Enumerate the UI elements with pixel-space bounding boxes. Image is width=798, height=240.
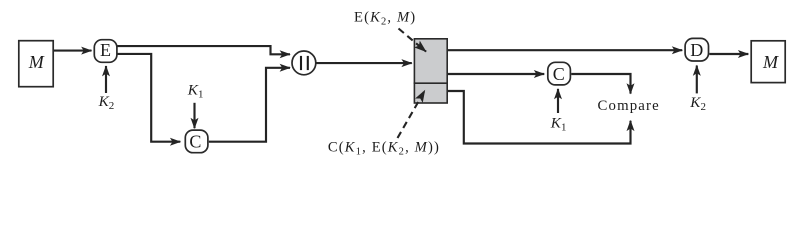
svg-text:E(K2, M): E(K2, M) [354,10,416,28]
svg-text:E: E [100,40,111,60]
wire C up to concat (bottom input) [209,68,290,142]
wire concat to message block [316,62,412,64]
wire block to D (top) [448,49,682,51]
svg-text:K2: K2 [98,93,115,112]
wire K2 up into E [105,66,107,93]
wire E to concat (top input) [118,46,291,54]
svg-text:K1: K1 [187,82,204,101]
box M (left, plaintext source) [19,41,53,87]
wire block bottom segment to Compare [448,91,631,144]
svg-text:C: C [189,132,201,152]
wire block to C (middle) [448,73,544,75]
dashed pointer to bottom segment [398,91,425,139]
wire D to box M (right) [709,53,748,55]
svg-text:M: M [28,52,45,72]
wire K2 up into D [696,66,698,94]
message block (gray, two segments) [414,39,448,103]
op concat || [292,51,316,75]
svg-text:D: D [690,40,703,60]
wire K1 up into right C [557,89,559,113]
wire K1 down into C [193,103,195,128]
svg-text:C: C [553,64,565,84]
op D (decryption function) [685,38,708,61]
svg-text:M: M [762,52,779,72]
wire right C down to Compare [571,74,630,94]
op E (encryption function) [94,40,117,63]
box M (right, recovered plaintext) [751,41,785,83]
svg-text:Compare: Compare [598,98,660,114]
op C (error-control function, lower left) [185,130,208,153]
wire E down to C [118,54,181,142]
svg-text:K2: K2 [689,94,706,113]
svg-text:C(K1, E(K2, M)): C(K1, E(K2, M)) [328,140,440,158]
svg-text:K1: K1 [550,114,567,133]
op C (error check, right) [548,62,571,85]
dashed pointer to top segment [399,29,427,52]
wire M to E [54,50,92,52]
